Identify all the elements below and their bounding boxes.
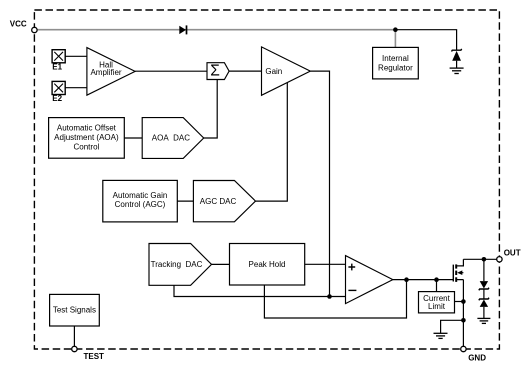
svg-text:TEST: TEST [84,352,105,361]
svg-text:Test Signals: Test Signals [53,306,96,315]
wire: OUT node down to clamp [483,259,485,281]
ground (source branch) [434,333,448,338]
svg-text:Regulator: Regulator [378,64,413,73]
svg-text:GND: GND [468,354,486,363]
zener diode D2 (VCC clamp) [452,49,462,68]
svg-text:Peak Hold: Peak Hold [249,260,286,269]
svg-text:AGC DAC: AGC DAC [200,197,237,206]
svg-text:Automatic Offset: Automatic Offset [57,124,117,133]
Automatic Gain Control (AGC) box [103,180,178,222]
junction (ground branch node) [461,318,466,323]
junction (current limit node) [461,299,466,304]
Internal Regulator box U1 [373,47,419,79]
Hall Amplifier [87,48,135,96]
wire AGC control to AGC DAC [177,200,193,202]
Test Signals box [50,294,100,326]
E1 input pad [52,50,65,63]
VCC terminal [32,27,37,32]
svg-text:AOA DAC: AOA DAC [152,134,190,143]
OUT terminal [497,257,502,262]
junction (VCC rail node) [393,27,398,32]
zener diode D5 (lower clamp) [479,298,489,319]
junction (gate node) [434,277,439,282]
dashed IC boundary [34,10,499,349]
Current Limit box [419,292,455,313]
svg-text:Control (AGC): Control (AGC) [115,200,166,209]
zener diode D4 (upper clamp) [479,281,489,299]
ground (clamp) [477,318,490,323]
wire Test Signals to TEST pin [73,326,75,346]
svg-text:E2: E2 [52,94,62,103]
TEST terminal [72,346,77,351]
wire: comparator output to gate [393,279,454,281]
svg-text:Internal: Internal [382,54,409,63]
svg-text:Amplifier: Amplifier [90,68,121,77]
wire: rail junction to zener branch [395,30,456,51]
diode D1 (series diode in VCC rail) [179,25,186,34]
wire summer to Gain [229,70,261,72]
svg-text:Limit: Limit [428,302,446,311]
wire AOA DAC to summer [204,80,218,139]
E2 input pad [52,81,65,94]
wire Current Limit right pin [455,301,464,303]
junction (OUT node) [482,257,487,262]
svg-text:Automatic Gain: Automatic Gain [113,191,168,200]
GND terminal [461,346,466,351]
svg-text:E1: E1 [52,62,62,71]
wire: VCC supply rail (gray) [37,30,395,48]
svg-text:VCC: VCC [10,19,27,28]
svg-text:Σ: Σ [210,63,220,80]
wire Tracking DAC to Peak Hold [212,263,230,265]
wire: source down to GND [462,280,464,347]
comparator U3 [346,256,393,304]
wire E2 to Hall amp [65,87,87,89]
AOA DAC [142,118,204,159]
summing node U2 (sigma) [207,63,229,80]
wire Hall amp to summer [135,70,207,72]
svg-text:Adjustment (AOA): Adjustment (AOA) [54,133,119,142]
junction (output node) [404,277,409,282]
svg-text:Control: Control [74,142,100,151]
svg-text:OUT: OUT [504,248,521,257]
wire Current Limit top pin [436,280,438,292]
wire E1 to Hall amp [65,55,87,57]
wire: ground branch [441,320,464,333]
Gain amplifier [262,47,311,95]
Automatic Offset Adjustment (AOA) Control box [49,118,125,159]
AGC DAC [193,181,255,222]
svg-text:Gain: Gain [265,67,282,76]
wire AOA control to AOA DAC [124,137,142,139]
wire: drain to OUT [463,258,499,260]
transistor Q1 (output NMOS) [453,259,463,282]
wire AGC DAC up to Gain [256,83,288,202]
Peak Hold box [230,244,305,286]
Tracking DAC [149,244,212,286]
wire: Peak Hold to plus input [305,263,346,265]
ground (regulator zener) [450,68,464,73]
wire: feedback to Peak Hold [264,280,406,318]
junction (minus node) [327,294,332,299]
svg-text:Tracking DAC: Tracking DAC [151,260,203,269]
wire: Tracking DAC bottom to minus input [174,285,346,296]
wire: Gain output down to minus node [310,71,329,296]
